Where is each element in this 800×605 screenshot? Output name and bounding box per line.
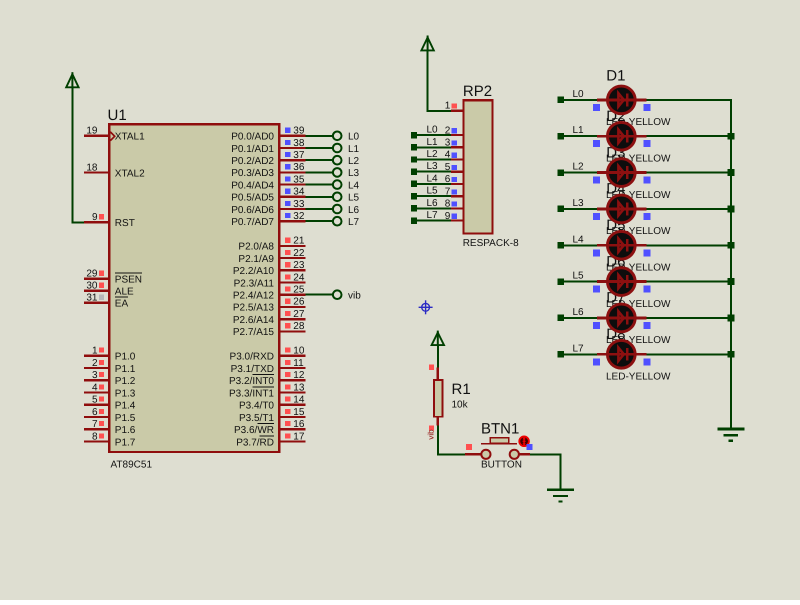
U1 pin 25 (P2.4/A12) stub (280, 285, 305, 296)
svg-text:5: 5 (445, 162, 451, 173)
svg-text:13: 13 (293, 382, 305, 393)
wire net L4 to RP2 pin 6 (411, 181, 451, 187)
LED D4 right state square (643, 213, 650, 220)
LED D5 left state square (593, 249, 600, 256)
LED D8 right state square (643, 358, 650, 365)
svg-text:P3.2/INT0: P3.2/INT0 (229, 376, 274, 387)
svg-text:P2.4/A12: P2.4/A12 (233, 291, 275, 302)
svg-text:3: 3 (445, 138, 451, 149)
power terminal VCC (R1) (432, 331, 444, 347)
U1 pin name P2.4/A12 (233, 291, 275, 302)
U1 pin name P1.6 (115, 425, 136, 436)
U1 pin 29 (PSEN) stub (84, 269, 108, 280)
svg-text:U1: U1 (108, 107, 127, 124)
svg-text:2: 2 (92, 358, 98, 369)
microcontroller U1 (AT89C51) body (109, 124, 279, 452)
svg-text:16: 16 (293, 419, 305, 430)
LED D7 left state square (593, 322, 600, 329)
svg-text:L1: L1 (427, 137, 439, 148)
LED D7 body (LED-YELLOW) (597, 304, 647, 332)
svg-text:P3.5/T1: P3.5/T1 (239, 413, 274, 424)
node terminal L6 (333, 205, 360, 216)
svg-text:4: 4 (445, 150, 451, 161)
U1 pin name P1.7 (115, 437, 136, 448)
svg-text:L3: L3 (427, 161, 439, 172)
node terminal L1 (333, 144, 360, 155)
RP2 pin 2 stub (445, 125, 463, 136)
svg-text:P1.0: P1.0 (115, 352, 136, 363)
wire BTN1 to ground (530, 453, 560, 489)
svg-text:6: 6 (92, 407, 98, 418)
U1 pin name ALE (115, 287, 134, 298)
wire LED D4 to bus (647, 208, 732, 210)
svg-text:P0.0/AD0: P0.0/AD0 (231, 132, 274, 143)
wire U1 pin 32 to terminal L7 (306, 220, 333, 222)
svg-text:3: 3 (92, 370, 98, 381)
U1 pin name EA (115, 297, 129, 309)
LED D4 body (LED-YELLOW) (597, 195, 647, 223)
U1 pin 11 (P3.1/TXD) stub (280, 358, 305, 369)
svg-text:8: 8 (92, 431, 98, 442)
R1 bottom state square (429, 425, 434, 430)
U1 pin name P2.6/A14 (233, 315, 275, 326)
svg-text:39: 39 (293, 126, 305, 137)
svg-text:P2.7/A15: P2.7/A15 (233, 327, 275, 338)
svg-text:31: 31 (86, 293, 98, 304)
svg-text:L7: L7 (573, 343, 585, 354)
BTN1 left pin stub (465, 453, 481, 455)
RP2 pin 1 stub (445, 101, 463, 112)
svg-text:D1: D1 (606, 68, 625, 85)
U1 pin 5 (P1.4) stub (84, 395, 108, 406)
svg-text:P0.4/AD4: P0.4/AD4 (231, 180, 274, 191)
U1 pin 39 (P0.0/AD0) stub (280, 126, 305, 137)
wire U1 pin 35 to terminal L4 (306, 184, 333, 186)
U1 pin 6 (P1.5) stub (84, 407, 108, 418)
svg-text:P1.3: P1.3 (115, 388, 136, 399)
U1 pin name XTAL2 (115, 168, 145, 179)
U1 pin 10 (P3.0/RXD) stub (280, 346, 305, 357)
svg-text:P3.6/WR: P3.6/WR (234, 425, 274, 436)
junction node on bus (row L1) (728, 133, 735, 140)
U1 pin name P0.3/AD3 (231, 168, 274, 179)
svg-text:34: 34 (293, 187, 305, 198)
svg-text:L0: L0 (348, 132, 360, 143)
svg-text:L1: L1 (348, 144, 360, 155)
svg-text:P3.0/RXD: P3.0/RXD (230, 352, 274, 363)
svg-text:12: 12 (293, 370, 305, 381)
LED D3 body (LED-YELLOW) (597, 159, 647, 187)
svg-text:P0.7/AD7: P0.7/AD7 (231, 217, 274, 228)
wire net L1 to RP2 pin 3 (411, 144, 451, 150)
svg-text:P1.6: P1.6 (115, 425, 136, 436)
LED bus wire to ground (right) (730, 99, 732, 429)
junction node on bus (row L2) (728, 169, 735, 176)
svg-text:XTAL2: XTAL2 (115, 168, 145, 179)
svg-text:22: 22 (293, 248, 305, 259)
U1 pin 26 (P2.5/A13) stub (280, 297, 305, 308)
svg-text:PSEN: PSEN (115, 275, 142, 286)
RP2 pin 8 stub (445, 199, 463, 210)
wire net L7 to RP2 pin 9 (411, 217, 451, 223)
ground (BTN1) (547, 490, 574, 502)
U1 pin 23 (P2.2/A10) stub (280, 260, 305, 271)
svg-text:P3.3/INT1: P3.3/INT1 (229, 388, 274, 399)
RP2 pin 6 stub (445, 174, 463, 185)
U1 pin name P0.5/AD5 (231, 193, 274, 204)
svg-text:L4: L4 (348, 180, 360, 191)
svg-text:L4: L4 (427, 173, 439, 184)
RP2 pin 7 stub (445, 186, 463, 197)
U1 pin 18 (XTAL2) stub (84, 162, 108, 173)
wire net L6 to LED D7 (558, 315, 598, 321)
svg-text:7: 7 (445, 186, 451, 197)
wire net L6 to RP2 pin 8 (411, 205, 451, 211)
U1 pin 3 (P1.2) stub (84, 370, 108, 381)
U1 pin 19 (XTAL1) stub (84, 126, 108, 137)
svg-text:P0.1/AD1: P0.1/AD1 (231, 144, 274, 155)
junction node on bus (row L4) (728, 242, 735, 249)
node terminal L2 (333, 156, 360, 167)
wire net L4 to LED D5 (558, 242, 598, 248)
svg-text:6: 6 (445, 174, 451, 185)
RP2 pin 9 stub (445, 211, 463, 222)
button BTN1 actuator (519, 437, 529, 447)
wire net L0 to LED D1 (558, 97, 598, 103)
button BTN1 contact bar (481, 443, 517, 445)
U1 XTAL1 clock chevron (110, 132, 114, 141)
wire net L5 to RP2 pin 7 (411, 193, 451, 199)
wire LED D2 to bus (647, 135, 732, 137)
svg-text:P2.0/A8: P2.0/A8 (238, 242, 274, 253)
svg-text:P2.1/A9: P2.1/A9 (238, 254, 274, 265)
U1 pin name P0.1/AD1 (231, 144, 274, 155)
svg-text:32: 32 (293, 211, 305, 222)
wire LED D7 to bus (647, 317, 732, 319)
svg-text:P0.2/AD2: P0.2/AD2 (231, 156, 274, 167)
svg-text:25: 25 (293, 285, 305, 296)
svg-text:L6: L6 (573, 307, 585, 318)
svg-text:L3: L3 (348, 168, 360, 179)
svg-text:P3.1/TXD: P3.1/TXD (231, 364, 274, 375)
wire LED D1 to bus (647, 99, 732, 101)
ground (LED bus) (717, 429, 744, 441)
svg-text:35: 35 (293, 174, 305, 185)
svg-text:L5: L5 (427, 186, 439, 197)
wire from VCC down to RST (71, 87, 86, 222)
wire R1 to BTN1 (net vib) (438, 426, 465, 456)
node terminal L5 (333, 193, 360, 204)
svg-text:26: 26 (293, 297, 305, 308)
wire net L7 to LED D8 (558, 351, 598, 357)
origin marker crosshair (419, 300, 433, 314)
U1 pin name P3.7/RD (236, 436, 274, 448)
LED D3 right state square (643, 177, 650, 184)
LED D2 right state square (643, 140, 650, 147)
LED D5 body (LED-YELLOW) (597, 231, 647, 259)
U1 pin 13 (P3.3/INT1) stub (280, 382, 305, 393)
wire VCC to RP2 pin 1 (427, 50, 451, 110)
svg-text:37: 37 (293, 150, 305, 161)
svg-text:ALE: ALE (115, 287, 134, 298)
button BTN1 right terminal (510, 450, 519, 459)
U1 pin name P1.5 (115, 413, 136, 424)
RP2 pin 5 stub (445, 162, 463, 173)
U1 pin name P1.2 (115, 376, 136, 387)
node terminal L0 (333, 132, 360, 143)
wire net L2 to LED D3 (558, 169, 598, 175)
svg-text:9: 9 (92, 212, 98, 223)
BTN1 left state square (466, 444, 472, 450)
U1 pin name P3.3/INT1 (229, 387, 274, 399)
U1 pin 33 (P0.6/AD6) stub (280, 199, 305, 210)
svg-text:P1.5: P1.5 (115, 413, 136, 424)
wire net L3 to LED D4 (558, 206, 598, 212)
LED D1 body (LED-YELLOW) (597, 86, 647, 114)
LED D2 body (LED-YELLOW) (597, 122, 647, 150)
svg-text:LED-YELLOW: LED-YELLOW (606, 371, 671, 382)
U1 pin 14 (P3.4/T0) stub (280, 395, 305, 406)
U1 pin 22 (P2.1/A9) stub (280, 248, 305, 259)
wire net L0 to RP2 pin 2 (411, 132, 451, 138)
U1 pin name P0.2/AD2 (231, 156, 274, 167)
LED D2 left state square (593, 140, 600, 147)
R1 top state square (429, 365, 434, 370)
U1 pin 15 (P3.5/T1) stub (280, 407, 305, 418)
LED D6 body (LED-YELLOW) (597, 268, 647, 296)
svg-text:10: 10 (293, 346, 305, 357)
U1 pin name P0.6/AD6 (231, 205, 274, 216)
LED D8 left state square (593, 358, 600, 365)
svg-text:19: 19 (86, 126, 98, 137)
svg-text:15: 15 (293, 407, 305, 418)
svg-text:L7: L7 (427, 210, 439, 221)
U1 pin 37 (P0.2/AD2) stub (280, 150, 305, 161)
wire LED D3 to bus (647, 172, 732, 174)
U1 pin name P1.3 (115, 388, 136, 399)
U1 pin 27 (P2.6/A14) stub (280, 309, 305, 320)
wire net L1 to LED D2 (558, 133, 598, 139)
svg-text:L2: L2 (427, 149, 439, 160)
svg-text:P1.7: P1.7 (115, 437, 136, 448)
svg-text:24: 24 (293, 272, 305, 283)
LED D7 right state square (643, 322, 650, 329)
U1 pin name P0.7/AD7 (231, 217, 274, 228)
U1 pin name P2.2/A10 (233, 266, 275, 277)
svg-text:P1.2: P1.2 (115, 376, 136, 387)
U1 pin 21 (P2.0/A8) stub (280, 236, 305, 247)
power terminal VCC (top-left) (66, 72, 78, 88)
R1 top pin stub (437, 368, 439, 380)
U1 pin 28 (P2.7/A15) stub (280, 321, 305, 332)
wire U1 pin 34 to terminal L5 (306, 196, 333, 198)
BTN1 right state square (527, 444, 533, 450)
U1 pin name P3.2/INT0 (229, 375, 274, 387)
U1 pin 4 (P1.3) stub (84, 382, 108, 393)
svg-text:RP2: RP2 (463, 83, 492, 100)
svg-text:RST: RST (115, 218, 135, 229)
svg-text:P2.5/A13: P2.5/A13 (233, 303, 275, 314)
svg-text:P0.3/AD3: P0.3/AD3 (231, 168, 274, 179)
svg-text:P2.2/A10: P2.2/A10 (233, 266, 275, 277)
junction node on bus (row L3) (728, 206, 735, 213)
svg-text:1: 1 (445, 101, 451, 112)
svg-text:P2.6/A14: P2.6/A14 (233, 315, 275, 326)
wire U1 pin 37 to terminal L2 (306, 159, 333, 161)
svg-text:36: 36 (293, 162, 305, 173)
svg-text:L2: L2 (573, 162, 585, 173)
svg-text:RESPACK-8: RESPACK-8 (463, 238, 519, 249)
svg-text:L0: L0 (573, 89, 585, 100)
U1 pin name P1.0 (115, 352, 136, 363)
svg-text:38: 38 (293, 138, 305, 149)
U1 pin 2 (P1.1) stub (84, 358, 108, 369)
U1 pin 36 (P0.3/AD3) stub (280, 162, 305, 173)
U1 pin 31 (EA) stub (84, 293, 108, 304)
U1 pin 7 (P1.6) stub (84, 419, 108, 430)
svg-text:P0.6/AD6: P0.6/AD6 (231, 205, 274, 216)
wire LED D8 to bus (647, 353, 732, 355)
U1 pin name P3.4/T0 (239, 401, 274, 412)
wire VCC to R1 (437, 345, 439, 368)
svg-text:P1.4: P1.4 (115, 401, 136, 412)
svg-text:11: 11 (293, 358, 304, 369)
U1 pin name PSEN (115, 273, 142, 285)
wire LED D6 to bus (647, 281, 732, 283)
U1 pin 35 (P0.4/AD4) stub (280, 174, 305, 185)
BTN1 right pin stub (519, 453, 530, 455)
U1 pin 1 (P1.0) stub (84, 346, 108, 357)
U1 pin name P3.1/TXD (231, 364, 274, 375)
U1 pin name P2.7/A15 (233, 327, 275, 338)
svg-text:L2: L2 (348, 156, 360, 167)
svg-text:4: 4 (92, 382, 98, 393)
svg-text:L6: L6 (348, 205, 360, 216)
svg-text:8: 8 (445, 199, 451, 210)
LED D5 right state square (643, 249, 650, 256)
LED D8 body (LED-YELLOW) (597, 340, 647, 368)
svg-text:BTN1: BTN1 (481, 421, 519, 438)
power terminal VCC (RP2) (421, 36, 433, 52)
R1 bottom pin stub (437, 417, 439, 426)
resistor R1 body (434, 380, 442, 417)
U1 pin name P0.4/AD4 (231, 180, 274, 191)
resistor pack RP2 body (463, 100, 492, 233)
U1 pin name P2.0/A8 (238, 242, 274, 253)
svg-text:L3: L3 (573, 198, 585, 209)
U1 pin name P3.5/T1 (239, 413, 274, 424)
wire net L2 to RP2 pin 4 (411, 156, 451, 162)
svg-text:L7: L7 (348, 217, 360, 228)
svg-text:P0.5/AD5: P0.5/AD5 (231, 193, 274, 204)
junction node on bus (row L5) (728, 278, 735, 285)
svg-text:1: 1 (92, 346, 98, 357)
U1 pin name P0.0/AD0 (231, 132, 274, 143)
wire U1 pin 38 to terminal L1 (306, 147, 333, 149)
svg-text:17: 17 (293, 431, 305, 442)
U1 pin name P2.3/A11 (234, 278, 275, 289)
svg-text:L1: L1 (573, 125, 585, 136)
svg-text:10k: 10k (452, 400, 469, 411)
svg-text:9: 9 (445, 211, 451, 222)
svg-text:33: 33 (293, 199, 305, 210)
svg-text:18: 18 (86, 162, 98, 173)
svg-text:30: 30 (86, 281, 98, 292)
svg-text:5: 5 (92, 395, 98, 406)
svg-text:29: 29 (86, 269, 98, 280)
svg-text:14: 14 (293, 395, 305, 406)
svg-text:L0: L0 (427, 125, 439, 136)
svg-text:AT89C51: AT89C51 (111, 460, 153, 471)
svg-text:L5: L5 (348, 193, 360, 204)
svg-text:21: 21 (293, 236, 305, 247)
svg-text:P1.1: P1.1 (115, 364, 136, 375)
svg-text:BUTTON: BUTTON (481, 460, 522, 471)
svg-text:R1: R1 (452, 381, 471, 398)
node terminal vib (333, 290, 361, 301)
junction node on bus (row L6) (728, 315, 735, 322)
U1 pin name RST (115, 218, 135, 229)
U1 pin name P3.6/WR (234, 424, 274, 436)
U1 pin 38 (P0.1/AD1) stub (280, 138, 305, 149)
junction node on bus (row L7) (728, 351, 735, 358)
svg-text:27: 27 (293, 309, 305, 320)
U1 pin name P1.4 (115, 401, 136, 412)
U1 pin 34 (P0.5/AD5) stub (280, 187, 305, 198)
node terminal L7 (333, 217, 360, 228)
U1 pin name P2.1/A9 (238, 254, 274, 265)
U1 pin name XTAL1 (115, 132, 145, 143)
svg-text:P2.3/A11: P2.3/A11 (234, 278, 275, 289)
svg-text:2: 2 (445, 125, 451, 136)
U1 pin 24 (P2.3/A11) stub (280, 272, 305, 283)
node terminal L3 (333, 168, 360, 179)
U1 pin name P2.5/A13 (233, 303, 275, 314)
button BTN1 left terminal (481, 450, 490, 459)
LED D3 left state square (593, 177, 600, 184)
svg-text:L6: L6 (427, 198, 439, 209)
wire LED D5 to bus (647, 244, 732, 246)
wire U1 pin 25 to terminal vib (306, 294, 333, 296)
U1 pin 32 (P0.7/AD7) stub (280, 211, 305, 222)
wire U1 pin 39 to terminal L0 (306, 135, 333, 137)
svg-text:28: 28 (293, 321, 305, 332)
U1 pin 12 (P3.2/INT0) stub (280, 370, 305, 381)
svg-text:XTAL1: XTAL1 (115, 132, 145, 143)
wire U1 pin 33 to terminal L6 (306, 208, 333, 210)
svg-text:EA: EA (115, 299, 129, 310)
U1 pin 30 (ALE) stub (84, 281, 108, 292)
LED D1 left state square (593, 104, 600, 111)
LED D6 right state square (643, 286, 650, 293)
button BTN1 cap (490, 438, 508, 444)
wire U1 pin 36 to terminal L3 (306, 171, 333, 173)
LED D4 left state square (593, 213, 600, 220)
svg-text:23: 23 (293, 260, 305, 271)
U1 pin 8 (P1.7) stub (84, 431, 108, 442)
RP2 pin 3 stub (445, 138, 463, 149)
svg-text:vib: vib (427, 429, 436, 440)
wire net L3 to RP2 pin 5 (411, 169, 451, 175)
svg-text:L4: L4 (573, 234, 585, 245)
RP2 pin 4 stub (445, 150, 463, 161)
svg-text:P3.4/T0: P3.4/T0 (239, 401, 274, 412)
U1 pin name P1.1 (115, 364, 136, 375)
svg-text:L5: L5 (573, 271, 585, 282)
LED D6 left state square (593, 286, 600, 293)
U1 pin 16 (P3.6/WR) stub (280, 419, 305, 430)
U1 pin 17 (P3.7/RD) stub (280, 431, 305, 442)
